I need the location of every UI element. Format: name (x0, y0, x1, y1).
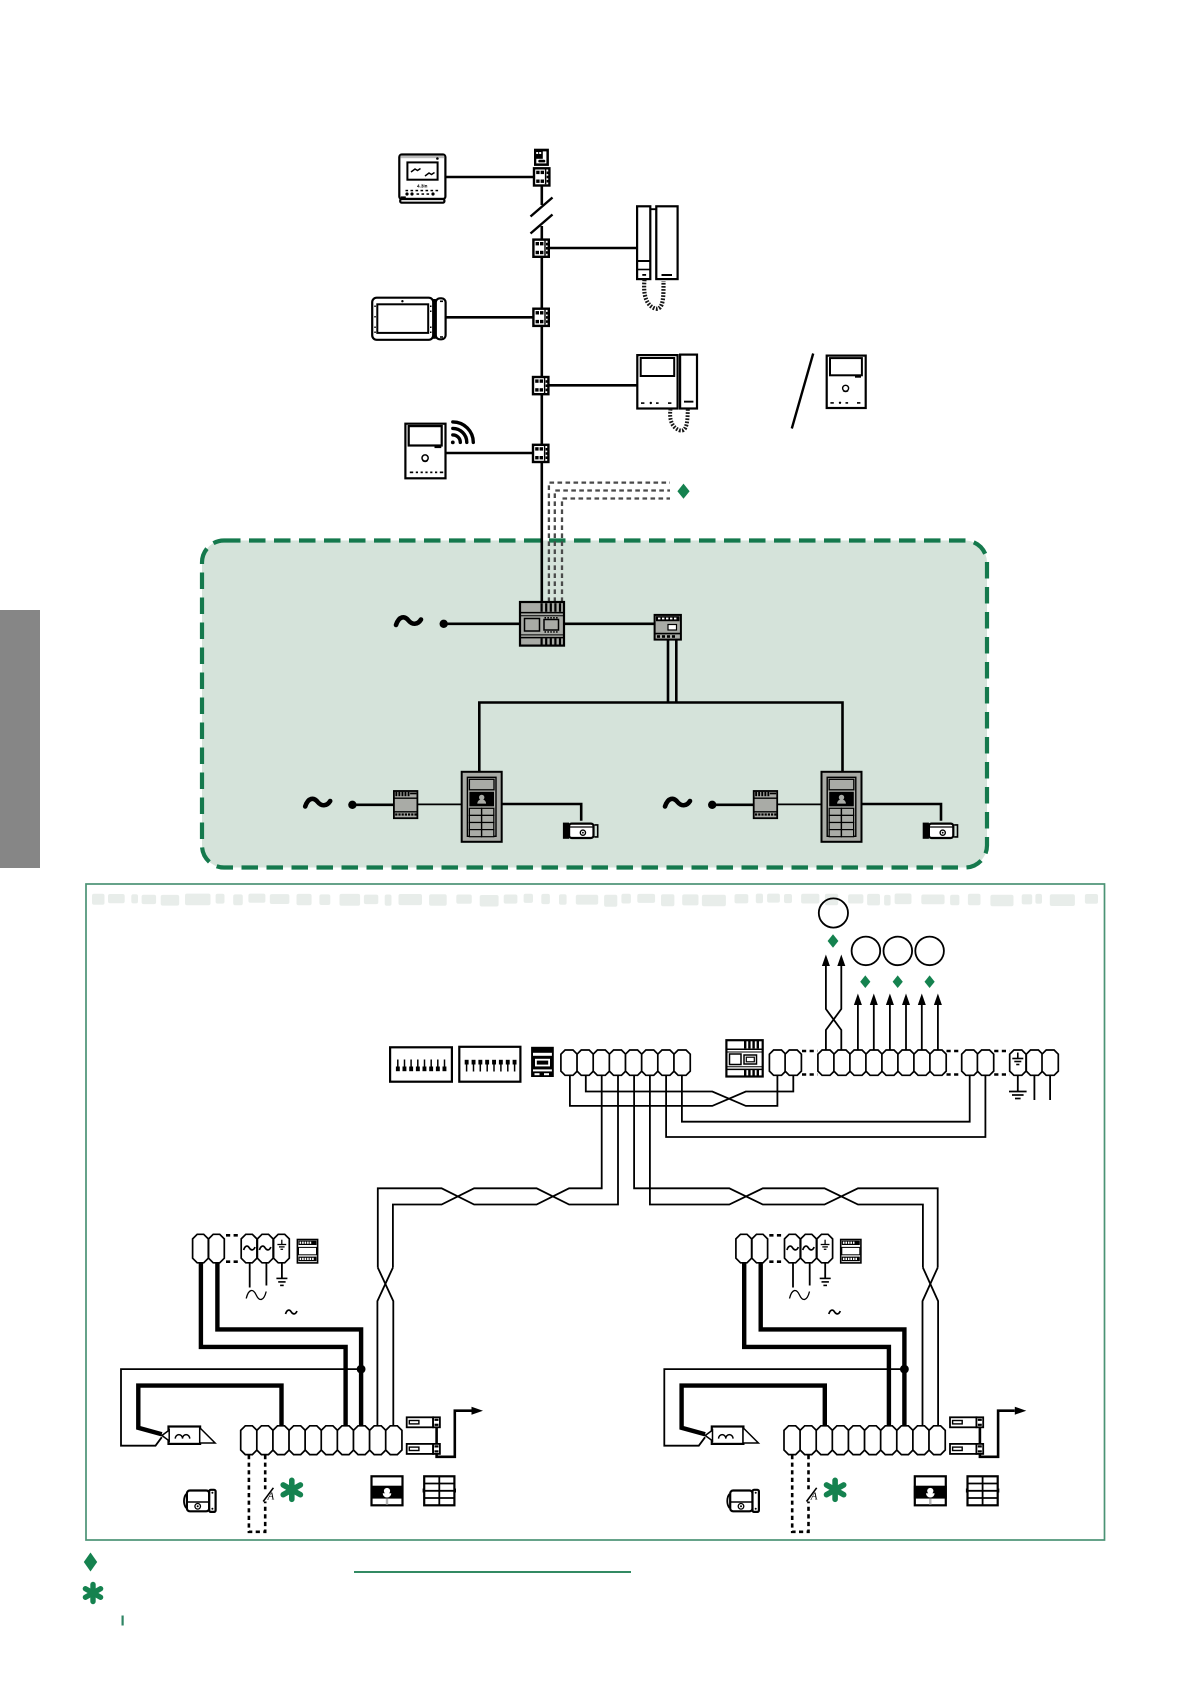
power module (section 1) (297, 1240, 317, 1263)
speaker module (section 1) (371, 1476, 404, 1505)
dashed lock wires (section 1) (249, 1455, 265, 1532)
wire dot to module (door station 2) (712, 803, 754, 806)
mains tilde (PSU) (396, 617, 421, 625)
wire module to station (door station 2) (777, 803, 821, 805)
small tilde (section 1) (286, 1310, 298, 1314)
earth symbol E1 (1009, 1092, 1027, 1099)
diamond notes 3 4 5 (860, 975, 935, 988)
AC wires (section 1) (250, 1263, 282, 1288)
electric lock (door station 2) (923, 823, 958, 839)
node dot (door station 2) (708, 801, 716, 809)
left twisted run lower (393, 1075, 618, 1267)
faint ghost text row (92, 894, 1098, 907)
wire T4 to combo monitor M3 (548, 384, 637, 387)
diamond note 1 (677, 484, 689, 499)
wire T2 to phone P1 (549, 247, 638, 250)
thick wire 1 (section 2) (744, 1263, 889, 1426)
grey side tab (0, 610, 40, 868)
terminal strip TS2 (2) (769, 1050, 785, 1075)
sine symbol (section 2) (790, 1290, 810, 1299)
switch symbol (section 1) (263, 1488, 273, 1502)
earth symbol (section 2) (820, 1278, 831, 1285)
asterisk note (section 2) (827, 1480, 844, 1499)
wire PSU to bus module (564, 622, 655, 625)
wire tablet M2 to T3 (446, 316, 534, 319)
diamond note 2 (828, 934, 839, 948)
branch wire to door stations (479, 703, 842, 773)
crossover wires TS1 to TS2 (570, 1075, 793, 1106)
terminal strip TS1 (8) (561, 1050, 577, 1075)
relay module U4 (726, 1040, 762, 1076)
mains tilde (door station 2) (665, 799, 690, 807)
tablet monitor M2 (372, 298, 445, 340)
asterisk note (section 1) (283, 1480, 300, 1499)
long run t7 (666, 1075, 985, 1137)
terminal strip TS3 (8) (818, 1050, 834, 1075)
symbol terminals (section 2) (785, 1234, 801, 1263)
door station 1 (entrance panel) (462, 772, 502, 842)
dashed strip gap 1 (802, 1051, 818, 1075)
power terminals (section 1) (193, 1234, 209, 1263)
node dot (PSU feed) (440, 620, 448, 628)
door station 2 (entrance panel) (822, 772, 862, 842)
dashed lock wires (section 2) (792, 1455, 808, 1532)
footnote green line (354, 1571, 631, 1573)
wall bracket icon (534, 149, 549, 166)
switch symbol (section 2) (807, 1488, 817, 1502)
module U3 (black) (531, 1047, 554, 1077)
connector plug A (section 2) (950, 1417, 983, 1427)
thick wire 2 (section 2) (761, 1263, 905, 1426)
power supply unit U1 (520, 602, 564, 646)
right pair crossover (923, 1268, 939, 1426)
terminal block T1 (534, 168, 549, 185)
AC wires (section 2) (793, 1263, 825, 1288)
electric lock (door station 1) (563, 823, 598, 839)
speaker module (section 2) (914, 1476, 947, 1505)
dashed gap (section 2) (769, 1235, 784, 1261)
earth wire (1017, 1075, 1019, 1091)
terminal block T5 (533, 445, 548, 462)
wire wifi monitor to T5 (446, 452, 534, 455)
dashed strip gap 2 (947, 1051, 962, 1075)
interface module (door station 1) (394, 791, 418, 818)
dashed option lines to diamond (549, 483, 670, 602)
monitor M1 (hands-free video monitor) (399, 155, 445, 203)
wires bus module down to branch (668, 640, 676, 703)
thin loop wire (section 1) (121, 1369, 361, 1446)
terminal strip TS5 (2) (1026, 1050, 1042, 1075)
thick wire 2 (section 1) (217, 1263, 361, 1426)
connector plug A (section 1) (407, 1417, 440, 1427)
plug link + arrow (section 2) (980, 1411, 1015, 1457)
thin loop wire (section 2) (664, 1369, 904, 1446)
riser bus wire (main) (540, 226, 543, 602)
wire dot to PSU (444, 622, 520, 625)
keypad module (section 1) (423, 1476, 456, 1505)
connector plug B (section 2) (950, 1444, 983, 1454)
alternative slash (792, 354, 813, 429)
interface module (door station 2) (754, 791, 778, 818)
monitor M4 (audio/video alternative) (827, 356, 866, 408)
thick wire 1 (section 1) (201, 1263, 346, 1426)
wifi waves (451, 422, 473, 444)
connector plug B (section 1) (407, 1444, 440, 1454)
line break symbol (531, 198, 553, 234)
terminal block T2 (533, 240, 548, 257)
right twisted run lower (650, 1075, 923, 1267)
node dot (door station 1) (348, 801, 356, 809)
wire module to station (door station 1) (417, 803, 461, 805)
door terminal strip (section 1) (241, 1426, 257, 1455)
svg-text:4.3in: 4.3in (417, 183, 428, 188)
dashed gap (section 1) (226, 1235, 241, 1261)
stub wires TS5 (1034, 1075, 1050, 1100)
junction dot (section 1) (357, 1365, 366, 1374)
wire dot to module (door station 1) (352, 803, 394, 806)
combo monitor M3 (monitor with handset) (637, 355, 697, 431)
main wiring box (86, 884, 1105, 1540)
footnote asterisk (85, 1585, 100, 1602)
earth terminal (1010, 1050, 1026, 1075)
door terminal strip (section 2) (784, 1426, 800, 1455)
crossed arrow wires to sounder (826, 966, 841, 1050)
terminal block T3 (533, 309, 548, 326)
electric lock L1 (184, 1490, 216, 1512)
sine symbol (section 1) (246, 1290, 266, 1299)
earth symbol (section 1) (276, 1278, 287, 1285)
DIP switch block S1 (down) (390, 1047, 452, 1081)
left pair crossover (377, 1268, 393, 1426)
wire M1 to terminal T1 (445, 176, 534, 179)
wire station to lock (door station 1) (502, 804, 582, 821)
junction dot (section 2) (900, 1365, 909, 1374)
power terminals (section 2) (736, 1234, 752, 1263)
green shaded zone (202, 541, 987, 868)
thick wire 3 (section 1) (138, 1386, 281, 1435)
power module (section 2) (841, 1240, 861, 1263)
mains tilde (door station 1) (305, 799, 330, 807)
symbol terminals (section 1) (241, 1234, 257, 1263)
thick wire 3 (section 2) (682, 1386, 825, 1435)
terminal block T4 (533, 377, 548, 394)
svg-text:A: A (267, 1491, 275, 1503)
right twisted run upper (634, 1075, 938, 1267)
wire station to lock (door station 2) (862, 804, 942, 821)
DIP switch block S2 (up) (459, 1047, 520, 1082)
footnote diamond (84, 1553, 97, 1572)
terminal strip TS4 (2) (962, 1050, 978, 1075)
electric lock L2 (727, 1490, 759, 1512)
riser bus wire (upper) (540, 186, 543, 206)
sounder circles C1 C2 C3 (852, 937, 944, 966)
audio door phone P1 (637, 206, 678, 308)
keypad module (section 2) (966, 1476, 999, 1505)
long run t8 (682, 1075, 970, 1121)
sounder circle C0 (819, 898, 848, 927)
plug link + arrow (section 1) (437, 1411, 472, 1457)
arrow wires to sounders (858, 1005, 938, 1050)
dashed strip gap 3 (994, 1051, 1009, 1075)
small tilde (section 2) (829, 1310, 841, 1314)
bus module U2 (655, 615, 681, 640)
footer tick (122, 1616, 124, 1626)
buzzer/transformer (section 1) (162, 1427, 215, 1444)
wifi monitor M5 (405, 424, 445, 479)
left twisted run upper (378, 1075, 602, 1267)
svg-text:A: A (810, 1491, 818, 1503)
buzzer/transformer (section 2) (705, 1427, 758, 1444)
